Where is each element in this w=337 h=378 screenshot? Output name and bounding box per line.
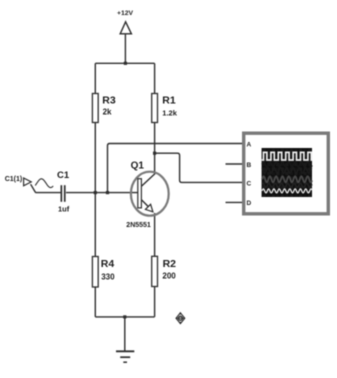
svg-text:R4: R4 — [101, 258, 115, 270]
svg-text:330: 330 — [101, 273, 115, 282]
svg-text:1.2k: 1.2k — [162, 109, 177, 118]
svg-text:R3: R3 — [102, 94, 116, 106]
svg-text:C: C — [247, 180, 252, 187]
svg-text:+12V: +12V — [117, 10, 134, 17]
svg-text:C1(1): C1(1) — [5, 176, 23, 183]
svg-text:A: A — [247, 142, 252, 149]
svg-text:R1: R1 — [162, 94, 176, 106]
svg-text:2k: 2k — [103, 107, 112, 116]
svg-text:D: D — [247, 200, 252, 207]
svg-text:Q1: Q1 — [131, 161, 145, 172]
svg-text:B: B — [247, 162, 252, 169]
svg-text:C1: C1 — [57, 170, 70, 181]
svg-text:1uf: 1uf — [58, 204, 70, 213]
svg-text:200: 200 — [162, 272, 176, 281]
svg-text:2N5551: 2N5551 — [126, 222, 151, 229]
svg-text:R2: R2 — [163, 258, 177, 270]
